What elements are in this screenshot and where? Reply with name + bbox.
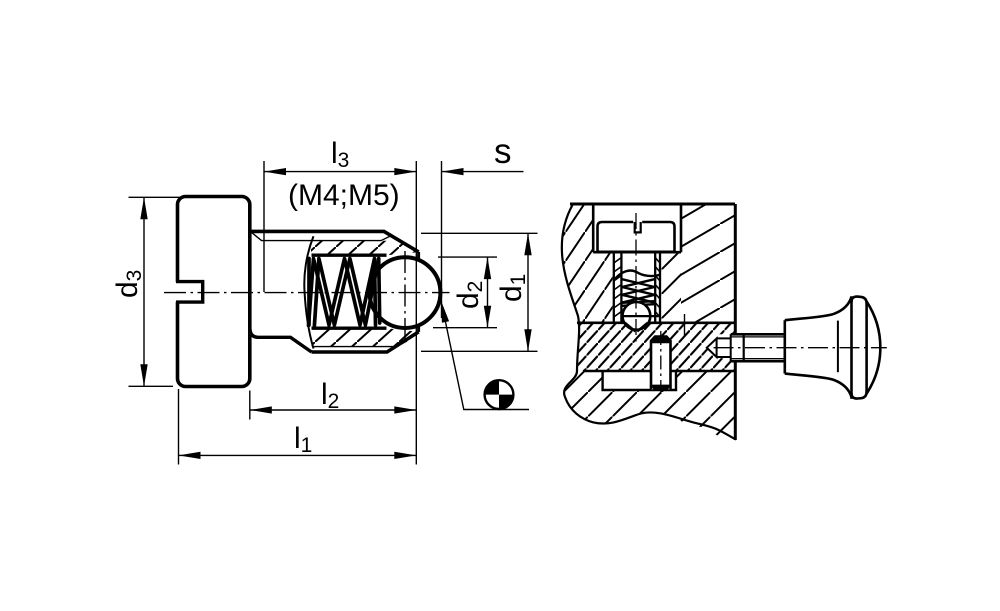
knob flare bottom [785, 374, 852, 398]
block break edge left [562, 204, 579, 371]
l1 dimension line [179, 454, 417, 456]
arrowheads [140, 168, 531, 459]
thread root line top [251, 232, 393, 241]
detent groove void [623, 323, 650, 333]
svg-text:(M4;M5): (M4;M5) [288, 179, 400, 212]
stud thread root [731, 337, 785, 359]
arrow d1 down [524, 329, 531, 351]
right column shallower hatch [681, 204, 735, 323]
thread tick marks left [614, 258, 622, 318]
screw head [178, 197, 250, 387]
labels [111, 132, 530, 457]
l1 extension left [178, 389, 180, 465]
channel bottom line [583, 370, 735, 373]
arrow l2 left [250, 406, 272, 413]
counterbore walls [593, 204, 681, 252]
svg-text:s: s [494, 132, 512, 171]
stud thread outer [731, 334, 786, 361]
block body with hatching [562, 204, 735, 440]
DIMENSIONS left figure [129, 161, 538, 465]
knob flare top [785, 297, 852, 321]
thread root line bottom [314, 341, 407, 347]
block break edge bottom [564, 371, 736, 440]
block outline right [734, 204, 737, 440]
break line [304, 236, 313, 348]
counterbore void [593, 204, 681, 252]
body top edge with chamfer [250, 231, 419, 252]
cavity top line [312, 253, 387, 256]
l2 extension left [249, 391, 251, 420]
knob contour line [837, 321, 839, 373]
arrow d2 up [484, 257, 491, 279]
d2 dimension line [487, 257, 489, 328]
l2 dimension line [250, 409, 416, 411]
block outline top [570, 203, 735, 206]
RIGHT FIGURE : installation example [540, 204, 887, 440]
d1 dimension line [527, 233, 529, 351]
d3 dimension line [143, 197, 145, 386]
arrow leader [441, 301, 449, 323]
stud cone tip [707, 338, 717, 357]
arrow l2 right [394, 406, 416, 413]
body bottom edge with chamfer [312, 332, 419, 352]
knob dome [867, 302, 881, 394]
pin axis centerline horizontal [714, 347, 887, 349]
d2 extension bottom [433, 327, 497, 329]
centerline horizontal [164, 292, 450, 294]
dimension s line [442, 171, 524, 173]
extension line body face [415, 161, 417, 465]
arrow d1 up [524, 233, 531, 255]
channel top line [577, 321, 735, 324]
surface finish symbol [485, 380, 514, 409]
cavity bottom line [312, 327, 387, 330]
knob neck [783, 320, 786, 373]
LEFT FIGURE : spring plunger section view [164, 197, 450, 387]
dimension l3 line [264, 171, 416, 173]
d3 extension bottom [129, 385, 174, 387]
slide band white [556, 323, 735, 371]
arrow l3 right [394, 168, 416, 175]
recess slot [603, 371, 676, 390]
d2 extension top [438, 256, 497, 258]
spring coil [309, 259, 380, 326]
stop pin [651, 337, 671, 390]
d1 extension bottom [421, 350, 538, 352]
arrow l3 left [264, 168, 286, 175]
arrow l1 left [179, 452, 201, 459]
screwdriver slot notch [173, 282, 181, 302]
neck contour with fillet [250, 329, 312, 352]
plunger centerline vertical [635, 213, 637, 345]
detent groove [625, 323, 648, 332]
leader line to symbol [443, 310, 529, 410]
ball [370, 257, 441, 328]
position tick [684, 314, 686, 337]
arrow d3 up [140, 197, 147, 219]
arrow s left [442, 168, 464, 175]
plunger hole void [613, 252, 662, 323]
extension line l3 left [263, 161, 265, 292]
stop pin centerline [660, 331, 662, 398]
body right face stub bottom [417, 325, 420, 332]
left column steeper hatch [540, 204, 614, 323]
plunger screw head [598, 222, 675, 252]
extension line ball tip [441, 161, 443, 318]
sleeve bottom lip line [622, 315, 660, 317]
slide band dense hatch [556, 323, 735, 371]
d1 extension top [421, 232, 538, 234]
thread tick marks right [655, 258, 660, 318]
stud hole void [707, 334, 735, 361]
ball right fig [623, 302, 651, 330]
spring top end coil wave [615, 271, 661, 280]
stud pilot cylinder [717, 334, 731, 361]
hatch upper thread band [311, 241, 418, 255]
d3 extension top [129, 196, 180, 198]
tapped hole walls [614, 252, 660, 323]
spring lattice right fig [622, 279, 655, 306]
plunger sleeve walls [621, 252, 655, 323]
knob cap [850, 296, 853, 399]
centerline vertical through ball [404, 251, 406, 339]
hatch lower thread band [312, 328, 418, 346]
head slot [633, 220, 642, 224]
arrow d3 down [140, 364, 147, 386]
arrow d2 down [484, 306, 491, 328]
arrow l1 right [394, 452, 416, 459]
thread end line [743, 334, 745, 361]
body right face stub top [417, 252, 420, 260]
